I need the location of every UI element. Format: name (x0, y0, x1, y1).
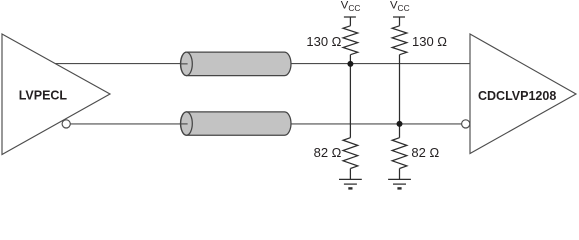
svg-text:82 Ω: 82 Ω (314, 145, 342, 160)
svg-text:LVPECL: LVPECL (19, 89, 68, 103)
svg-text:130 Ω: 130 Ω (412, 34, 447, 49)
svg-text:130 Ω: 130 Ω (306, 34, 341, 49)
svg-text:VCC: VCC (341, 0, 361, 13)
svg-text:CDCLVP1208: CDCLVP1208 (478, 89, 556, 103)
svg-text:VCC: VCC (390, 0, 410, 13)
svg-text:82 Ω: 82 Ω (411, 145, 439, 160)
